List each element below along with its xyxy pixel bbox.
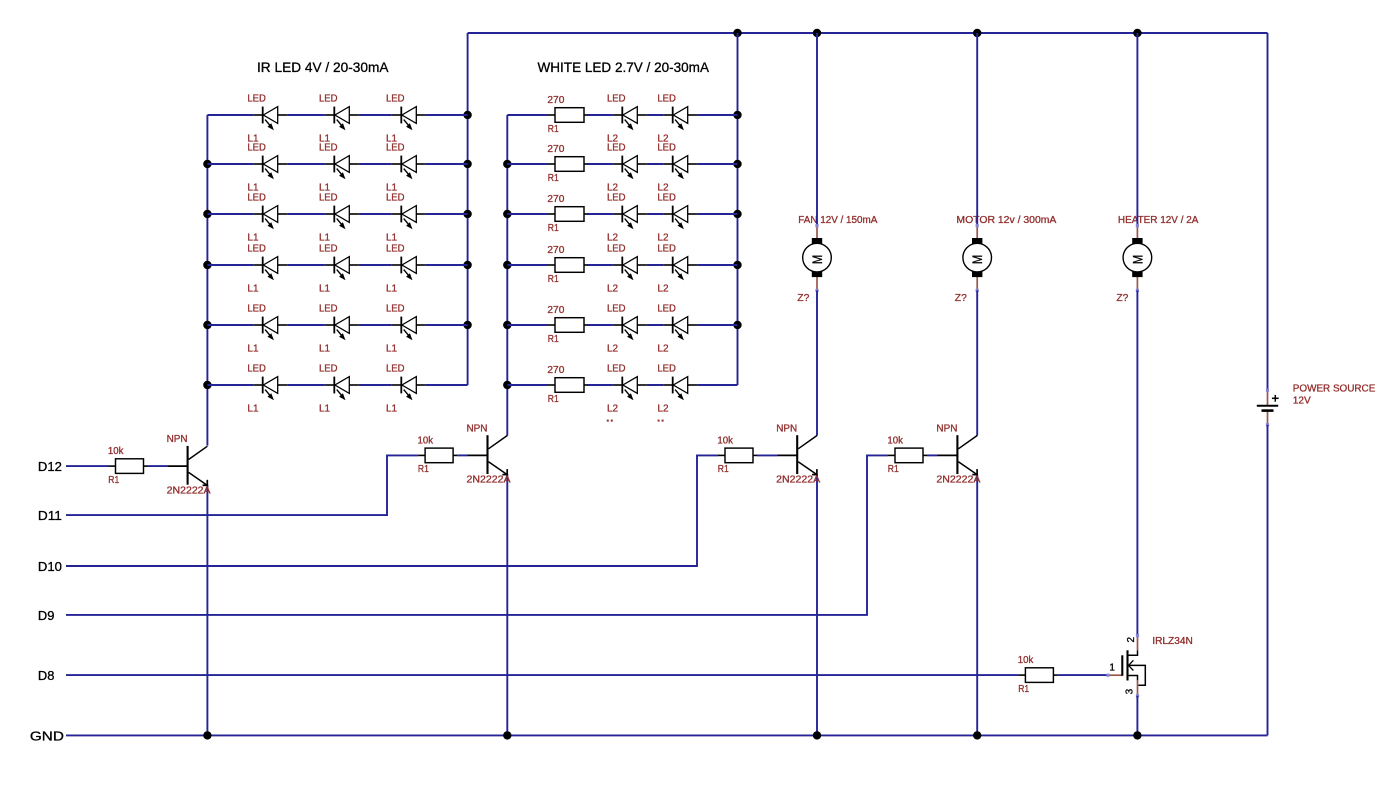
junction white left rail row 2 — [503, 160, 511, 168]
wire IR row 5 — [207, 324, 467, 326]
svg-text:2: 2 — [1126, 636, 1137, 642]
junction top rail / fan column — [813, 29, 821, 37]
svg-text:LED: LED — [319, 193, 338, 204]
LED L1 (IR row 6 col 3) — [386, 364, 426, 415]
svg-text:LED: LED — [319, 364, 338, 375]
svg-text:10k: 10k — [1018, 655, 1034, 666]
LED L1 (IR row 2 col 3) — [386, 143, 426, 194]
svg-text:D12: D12 — [38, 459, 62, 474]
junction IR left rail row 4 — [203, 261, 211, 269]
svg-text:2N2222A: 2N2222A — [936, 475, 980, 486]
svg-text:L1: L1 — [319, 283, 331, 294]
svg-text:LED: LED — [247, 364, 266, 375]
svg-text:R1: R1 — [718, 464, 729, 475]
svg-text:LED: LED — [657, 244, 676, 255]
svg-text:1: 1 — [1109, 663, 1115, 674]
svg-text:LED: LED — [607, 193, 626, 204]
svg-text:FAN 12V / 150mA: FAN 12V / 150mA — [798, 215, 877, 226]
svg-text:LED: LED — [386, 143, 405, 154]
wire D8 to R1 — [66, 674, 1018, 676]
svg-text:Z?: Z? — [1116, 293, 1128, 304]
svg-text:L2: L2 — [657, 283, 669, 294]
LED L2 (white row 5 col 1) — [607, 304, 647, 355]
svg-text:L2: L2 — [607, 232, 619, 243]
resistor R1 270 (white row 5) — [547, 305, 588, 345]
svg-text:L1: L1 — [319, 343, 331, 354]
junction top rail / motor column — [973, 29, 981, 37]
wire battery column lower — [1267, 425, 1269, 736]
LED L1 (IR row 1 col 2) — [319, 94, 359, 145]
svg-text:D9: D9 — [38, 608, 55, 623]
junction GND / Q1 emitter — [203, 731, 211, 739]
wire heater column lower (to MOSFET drain) — [1136, 291, 1138, 636]
wire motor column upper — [976, 33, 978, 226]
LED L1 (IR row 1 col 3) — [386, 94, 426, 145]
svg-text:270: 270 — [547, 144, 564, 155]
svg-text:L2: L2 — [607, 283, 619, 294]
svg-text:LED: LED — [386, 94, 405, 105]
LED L1 (IR row 5 col 3) — [386, 304, 426, 355]
svg-text:Z?: Z? — [797, 293, 809, 304]
svg-text:R1: R1 — [888, 464, 899, 475]
wire Q4 emitter to GND — [976, 474, 978, 735]
wire heater column upper — [1136, 33, 1138, 226]
svg-text:10k: 10k — [418, 435, 434, 446]
svg-text:L1: L1 — [319, 403, 331, 414]
junction white right rail row 5 — [733, 321, 741, 329]
wire R1 to MOSFET gate — [1057, 674, 1107, 676]
battery POWER SOURCE 12V — [1257, 389, 1279, 427]
wire Q2 emitter to GND — [506, 474, 508, 735]
resistor R1 10k (D11) — [418, 435, 458, 475]
junction GND / Q2 emitter — [503, 731, 511, 739]
junction IR left rail row 3 — [203, 210, 211, 218]
wire GND bus — [66, 734, 1268, 736]
svg-text:D11: D11 — [38, 508, 62, 523]
wire white row 6 — [507, 384, 737, 386]
svg-text:LED: LED — [386, 304, 405, 315]
LED L1 (IR row 2 col 2) — [319, 143, 359, 194]
wire Q1 emitter to GND — [206, 485, 208, 735]
wire D10 to R1 — [66, 455, 718, 566]
svg-text:M: M — [969, 255, 985, 264]
junction IR right rail row 5 — [463, 321, 471, 329]
svg-text:L2: L2 — [657, 403, 669, 414]
LED L2 (white row 3 col 1) — [607, 193, 647, 244]
svg-text:L1: L1 — [247, 403, 259, 414]
svg-text:LED: LED — [607, 143, 626, 154]
junction white left rail row 6 — [503, 381, 511, 389]
wire battery column upper — [1267, 33, 1269, 390]
wire R1 to Q4 base — [927, 454, 938, 456]
svg-text:POWER SOURCE: POWER SOURCE — [1293, 384, 1376, 395]
wire IR array right rail — [467, 33, 469, 385]
svg-text:2N2222A: 2N2222A — [167, 485, 211, 496]
junction white right rail row 4 — [733, 261, 741, 269]
dots under white row6 labels — [607, 420, 664, 422]
wire white array right rail — [737, 33, 739, 385]
junction GND / Q3 emitter — [813, 731, 821, 739]
resistor R1 10k (D8, MOSFET gate) — [1018, 655, 1058, 695]
svg-text:R1: R1 — [418, 464, 429, 475]
svg-text:LED: LED — [657, 143, 676, 154]
wire R1 to Q1 base — [148, 465, 168, 467]
svg-text:R1: R1 — [108, 475, 119, 486]
junction white left rail row 5 — [503, 321, 511, 329]
svg-text:LED: LED — [247, 143, 266, 154]
svg-text:L1: L1 — [319, 232, 331, 243]
svg-text:LED: LED — [657, 94, 676, 105]
svg-text:HEATER 12V / 2A: HEATER 12V / 2A — [1118, 215, 1199, 226]
svg-text:R1: R1 — [548, 173, 559, 184]
transistor Q3 NPN 2N2222A (D10) — [776, 423, 820, 485]
resistor R1 10k (D9) — [887, 435, 927, 475]
svg-text:L1: L1 — [247, 232, 259, 243]
svg-text:R1: R1 — [548, 274, 559, 285]
svg-text:R1: R1 — [1018, 684, 1029, 695]
wire R1 to Q3 base — [757, 454, 777, 456]
svg-text:NPN: NPN — [167, 434, 188, 445]
LED L1 (IR row 3 col 1) — [247, 193, 287, 244]
svg-text:LED: LED — [386, 244, 405, 255]
svg-text:LED: LED — [607, 304, 626, 315]
resistor R1 270 (white row 3) — [547, 194, 588, 234]
transistor Q2 NPN 2N2222A (D11) — [467, 423, 511, 485]
junction GND / MOSFET source — [1133, 731, 1141, 739]
svg-text:10k: 10k — [887, 435, 903, 446]
svg-text:270: 270 — [547, 245, 564, 256]
LED L1 (IR row 4 col 3) — [386, 244, 426, 295]
svg-text:L1: L1 — [386, 343, 398, 354]
junction IR right rail row 1 — [463, 111, 471, 119]
LED L2 (white row 2 col 2) — [657, 143, 697, 194]
wire IR array left rail (to Q1 collector) — [206, 115, 208, 446]
svg-text:LED: LED — [319, 244, 338, 255]
svg-text:R1: R1 — [548, 223, 559, 234]
wire MOSFET source to GND — [1136, 696, 1138, 736]
junction white right rail row 2 — [733, 160, 741, 168]
motor FAN M1 — [803, 224, 832, 292]
svg-text:MOTOR 12v / 300mA: MOTOR 12v / 300mA — [956, 215, 1056, 226]
resistor R1 270 (white row 1) — [547, 95, 588, 135]
svg-text:LED: LED — [607, 94, 626, 105]
LED L1 (IR row 3 col 3) — [386, 193, 426, 244]
LED L1 (IR row 6 col 1) — [247, 364, 287, 415]
wire top power rail — [468, 32, 1268, 34]
wire IR row 1 — [207, 114, 467, 116]
svg-text:LED: LED — [319, 94, 338, 105]
resistor R1 270 (white row 4) — [547, 245, 588, 285]
junction GND / Q4 emitter — [973, 731, 981, 739]
svg-text:LED: LED — [607, 364, 626, 375]
svg-text:270: 270 — [547, 365, 564, 376]
svg-text:2N2222A: 2N2222A — [467, 475, 511, 486]
svg-text:12V: 12V — [1293, 395, 1311, 406]
wire Q3 emitter to GND — [816, 474, 818, 735]
svg-text:IRLZ34N: IRLZ34N — [1152, 636, 1193, 647]
svg-text:L2: L2 — [607, 343, 619, 354]
wire D12 to R1 — [66, 465, 109, 467]
svg-text:LED: LED — [657, 364, 676, 375]
svg-text:10k: 10k — [717, 435, 733, 446]
svg-text:WHITE LED 2.7V / 20-30mA: WHITE LED 2.7V / 20-30mA — [538, 59, 710, 75]
svg-text:NPN: NPN — [776, 423, 797, 434]
svg-text:LED: LED — [247, 193, 266, 204]
LED L1 (IR row 1 col 1) — [247, 94, 287, 145]
svg-text:L2: L2 — [657, 232, 669, 243]
svg-text:LED: LED — [247, 94, 266, 105]
svg-text:L1: L1 — [247, 343, 259, 354]
MOSFET U1 IRLZ34N — [1106, 634, 1145, 697]
resistor R1 270 (white row 2) — [547, 144, 588, 184]
junction white left rail row 3 — [503, 210, 511, 218]
LED L2 (white row 4 col 1) — [607, 244, 647, 295]
resistor R1 10k (D12) — [108, 446, 148, 486]
LED L2 (white row 5 col 2) — [657, 304, 697, 355]
svg-text:L2: L2 — [657, 343, 669, 354]
junction IR right rail row 4 — [463, 261, 471, 269]
wire IR row 2 — [207, 163, 467, 165]
svg-text:LED: LED — [386, 193, 405, 204]
junction top rail / heater column — [1133, 29, 1141, 37]
svg-text:L1: L1 — [386, 403, 398, 414]
svg-text:NPN: NPN — [936, 423, 957, 434]
svg-text:NPN: NPN — [467, 423, 488, 434]
wire fan column lower — [816, 291, 818, 436]
wire white row 4 — [507, 264, 737, 266]
wire white row 1 — [507, 114, 737, 116]
LED L2 (white row 1 col 1) — [607, 94, 647, 145]
LED L2 (white row 3 col 2) — [657, 193, 697, 244]
svg-text:L1: L1 — [247, 283, 259, 294]
wire D11 to R1 — [66, 455, 418, 515]
svg-text:LED: LED — [657, 193, 676, 204]
svg-text:LED: LED — [386, 364, 405, 375]
svg-text:R1: R1 — [548, 394, 559, 405]
wire fan column upper — [816, 33, 818, 226]
LED L2 (white row 6 col 1) — [607, 364, 647, 415]
junction IR right rail row 2 — [463, 160, 471, 168]
wire motor column lower — [976, 291, 978, 436]
junction white left rail row 4 — [503, 261, 511, 269]
label POWER SOURCE 12V — [1293, 384, 1376, 407]
LED L2 (white row 2 col 1) — [607, 143, 647, 194]
junction IR left rail row 6 — [203, 381, 211, 389]
svg-text:L1: L1 — [386, 283, 398, 294]
svg-text:LED: LED — [319, 304, 338, 315]
wire D9 to R1 — [66, 455, 888, 615]
motor HEATER M3 — [1123, 224, 1152, 292]
junction IR left rail row 2 — [203, 160, 211, 168]
svg-text:M: M — [1129, 255, 1145, 264]
svg-text:270: 270 — [547, 305, 564, 316]
svg-text:270: 270 — [547, 194, 564, 205]
junction white right rail row 1 — [733, 111, 741, 119]
junction white right rail row 3 — [733, 210, 741, 218]
wire IR row 6 — [207, 384, 467, 386]
svg-text:LED: LED — [319, 143, 338, 154]
svg-text:LED: LED — [657, 304, 676, 315]
svg-text:R1: R1 — [548, 124, 559, 135]
svg-text:LED: LED — [247, 304, 266, 315]
wire white row 5 — [507, 324, 737, 326]
LED L1 (IR row 4 col 2) — [319, 244, 359, 295]
svg-text:D10: D10 — [38, 559, 62, 574]
wire white array left rail (to Q2 collector) — [506, 115, 508, 436]
svg-text:L1: L1 — [386, 232, 398, 243]
transistor Q1 NPN 2N2222A (D12) — [167, 434, 211, 496]
wire IR row 4 — [207, 264, 467, 266]
wire IR row 3 — [207, 213, 467, 215]
LED L2 (white row 4 col 2) — [657, 244, 697, 295]
wire R1 to Q2 base — [457, 454, 468, 456]
LED L1 (IR row 6 col 2) — [319, 364, 359, 415]
LED L2 (white row 1 col 2) — [657, 94, 697, 145]
wire white row 3 — [507, 213, 737, 215]
svg-text:L2: L2 — [607, 403, 619, 414]
LED L2 (white row 6 col 2) — [657, 364, 697, 415]
transistor Q4 NPN 2N2222A (D9) — [936, 423, 980, 485]
junction IR right rail row 3 — [463, 210, 471, 218]
svg-text:IR LED 4V / 20-30mA: IR LED 4V / 20-30mA — [257, 59, 389, 75]
junction IR left rail row 5 — [203, 321, 211, 329]
svg-text:LED: LED — [607, 244, 626, 255]
svg-text:GND: GND — [30, 728, 64, 743]
LED L1 (IR row 5 col 2) — [319, 304, 359, 355]
svg-text:10k: 10k — [108, 446, 124, 457]
LED L1 (IR row 2 col 1) — [247, 143, 287, 194]
resistor R1 10k (D10) — [717, 435, 757, 475]
LED L1 (IR row 3 col 2) — [319, 193, 359, 244]
svg-text:LED: LED — [247, 244, 266, 255]
svg-text:Z?: Z? — [955, 293, 967, 304]
motor MOTOR M2 — [963, 224, 992, 292]
svg-text:D8: D8 — [38, 668, 55, 683]
wire white row 2 — [507, 163, 737, 165]
LED L1 (IR row 5 col 1) — [247, 304, 287, 355]
LED L1 (IR row 4 col 1) — [247, 244, 287, 295]
svg-text:M: M — [809, 255, 825, 264]
junction top rail / white-array right rail — [733, 29, 741, 37]
svg-text:3: 3 — [1125, 688, 1136, 694]
svg-text:270: 270 — [547, 95, 564, 106]
resistor R1 270 (white row 6) — [547, 365, 588, 405]
svg-text:R1: R1 — [548, 334, 559, 345]
svg-text:2N2222A: 2N2222A — [776, 475, 820, 486]
